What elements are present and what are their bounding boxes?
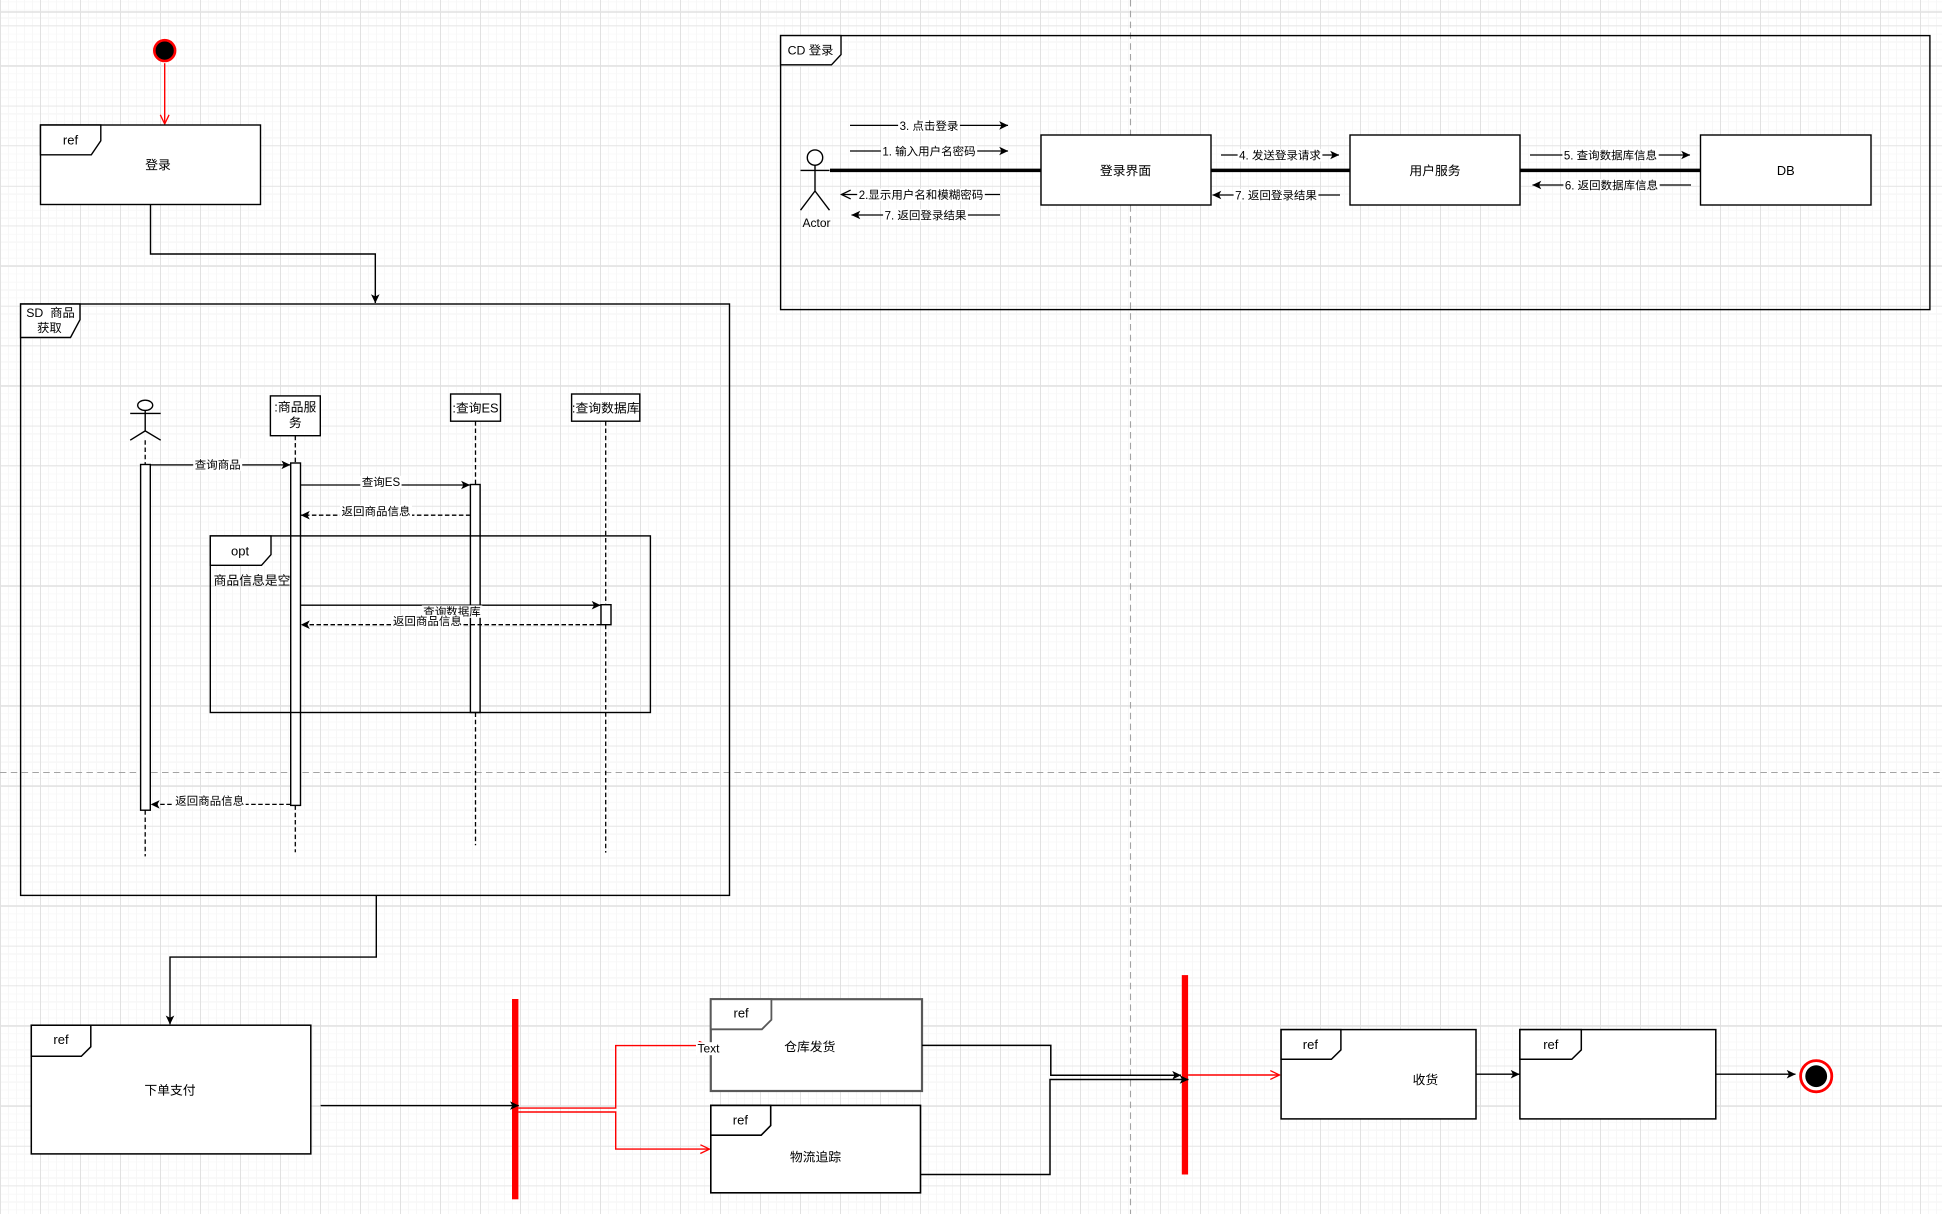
svg-text:ref: ref (1303, 1037, 1319, 1052)
svg-text:Actor: Actor (803, 216, 831, 230)
lifeline head :商品服务 (270, 396, 320, 436)
svg-text:ES: ES (385, 477, 401, 489)
ref 物流追踪 box (711, 1105, 921, 1192)
svg-text:3.: 3. (900, 121, 910, 133)
message 返回商品信息 (DB reply) (301, 615, 601, 627)
svg-text:ref: ref (733, 1113, 749, 1128)
lifeline dashes (商品服务 bottom) (294, 805, 296, 852)
box 登录界面 (1041, 135, 1211, 205)
activation bar (查询数据库) (601, 605, 611, 625)
svg-text:1.: 1. (882, 146, 892, 158)
wire: 下单支付 -> fork bar (321, 1105, 519, 1107)
lifeline dashes (查询ES top) (475, 421, 477, 484)
lifeline head :查询ES (451, 394, 501, 421)
message 5. 查询数据库信息 (1530, 149, 1690, 162)
svg-text:ref: ref (1543, 1037, 1559, 1052)
svg-text:Text: Text (698, 1042, 721, 1056)
ref 下单支付 box (31, 1025, 311, 1154)
svg-text:4.: 4. (1239, 150, 1249, 162)
lifeline dashes (查询数据库 top) (605, 421, 607, 604)
svg-text:CD: CD (788, 44, 806, 58)
svg-text::: : (452, 401, 456, 416)
wire: thick link 登录界面 - 用户服务 (1211, 169, 1350, 173)
box DB (1701, 135, 1872, 205)
message 7. 返回登录结果 (to actor) (852, 209, 1001, 222)
wire: thick link actor - 登录界面 (830, 169, 1041, 173)
wire: red edge join bar -> 收货 (1188, 1074, 1279, 1076)
svg-text:6.: 6. (1565, 180, 1575, 192)
wire: thick link 用户服务 - DB (1520, 169, 1701, 173)
label Actor (803, 216, 831, 230)
svg-text:2.: 2. (859, 190, 869, 202)
svg-text::: : (274, 400, 278, 415)
guard 商品信息是空 (214, 574, 289, 586)
svg-text:opt: opt (231, 544, 249, 559)
final node (UML end state) (1801, 1061, 1832, 1092)
message 查询数据库 (301, 605, 601, 618)
svg-text:ref: ref (53, 1032, 69, 1047)
opt fragment frame (210, 536, 650, 713)
wire: 物流追踪 -> join bar (921, 1080, 1189, 1175)
activation bar (查询ES) (470, 485, 480, 713)
lifeline dashes (商品服务 top) (294, 436, 296, 463)
CD 登录 frame (781, 36, 1930, 310)
wire: red edge from initial node to ref 登录 (164, 63, 166, 124)
ref box (empty) (1520, 1030, 1716, 1119)
ref 仓库发货 box (gray) (711, 999, 922, 1091)
wire: connector SD frame -> 下单支付 (170, 895, 376, 1024)
message 查询商品 (150, 458, 290, 470)
initial node (UML start state) (154, 40, 175, 61)
join bar (red) (1182, 975, 1188, 1174)
lifeline dashes (actor bottom) (144, 810, 146, 856)
message 返回商品信息 (final reply) (151, 795, 291, 807)
message 1. 输入用户名密码 (850, 145, 1008, 158)
message 7. 返回登录结果 (to 登录界面) (1213, 189, 1341, 202)
activation bar (actor) (141, 465, 151, 811)
svg-text:5.: 5. (1564, 150, 1574, 162)
label Text (696, 1042, 722, 1056)
message 4. 发送登录请求 (1221, 149, 1339, 162)
svg-text::: : (572, 401, 576, 416)
activation bar (商品服务) (291, 463, 301, 805)
message 返回商品信息 (ES reply) (301, 505, 470, 517)
svg-text:7.: 7. (885, 210, 895, 222)
box 用户服务 (1350, 135, 1520, 205)
fork bar (red) (512, 999, 518, 1199)
page boundary horizontal dashed line (0, 772, 1942, 774)
wire: red edge fork -> 物流追踪 (518, 1112, 709, 1149)
wire: 仓库发货 -> join bar (922, 1045, 1181, 1075)
wire: red edge fork -> 仓库发货 (518, 1046, 708, 1109)
message 6. 返回数据库信息 (1533, 179, 1692, 192)
svg-text:SD: SD (26, 306, 43, 320)
page boundary vertical dashed line (1130, 0, 1132, 1214)
ref 收货 box (1281, 1030, 1476, 1119)
svg-text:7.: 7. (1235, 190, 1245, 202)
message 查询ES (301, 476, 470, 489)
SD 商品获取 frame (21, 304, 730, 895)
lifeline head :查询数据库 (572, 394, 640, 421)
wire: 收货 -> ref box 2 (1476, 1073, 1520, 1075)
svg-text:ES: ES (482, 401, 499, 416)
actor (SD frame) (130, 400, 161, 440)
message 2.显示用户名和模糊密码 (842, 189, 1001, 202)
lifeline dashes (查询ES bottom) (475, 713, 477, 846)
svg-text:ref: ref (734, 1006, 750, 1021)
wire: connector ref 登录 -> SD frame (151, 205, 376, 303)
lifeline dashes (查询数据库 bottom) (605, 625, 607, 853)
message 3. 点击登录 (850, 120, 1008, 133)
ref 登录 interaction-use box (41, 125, 261, 205)
actor (CD frame) (801, 150, 830, 210)
svg-text:ref: ref (63, 133, 79, 148)
wire: ref box 2 -> final node (1716, 1073, 1796, 1075)
svg-text:DB: DB (1777, 163, 1795, 178)
lifeline dashes (actor top) (144, 440, 146, 464)
